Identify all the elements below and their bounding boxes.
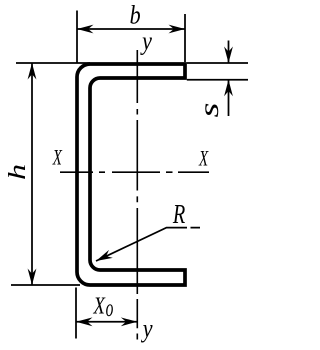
svg-text:X: X: [93, 292, 106, 319]
svg-text:h: h: [5, 164, 31, 180]
centerline y-y (vertical): [136, 50, 138, 340]
R leader arrow: [94, 250, 113, 265]
svg-text:y: y: [140, 315, 153, 343]
arrow s bottom: [224, 80, 233, 97]
dimension s lines: [228, 41, 230, 117]
channel profile outline: [77, 64, 185, 285]
svg-text:o: o: [106, 294, 114, 322]
arrow Xo left: [76, 317, 93, 326]
arrow h bottom: [28, 269, 37, 286]
centerline x-x (horizontal): [60, 171, 209, 173]
dimension b extension lines: [77, 11, 185, 64]
dimension h line: [31, 63, 33, 285]
arrow s top: [224, 47, 233, 64]
svg-text:X: X: [52, 146, 63, 171]
dimension s extension lines: [187, 63, 248, 80]
svg-text:R: R: [172, 200, 186, 229]
svg-text:s: s: [194, 103, 224, 118]
svg-text:y: y: [139, 28, 152, 56]
svg-text:X: X: [198, 147, 209, 172]
svg-text:b: b: [130, 2, 141, 30]
dimension Xo line: [76, 321, 137, 323]
arrow h top: [28, 63, 37, 80]
arrow b left: [77, 25, 94, 34]
arrow Xo right: [121, 317, 138, 326]
dimension b line: [77, 28, 185, 30]
arrow b right: [169, 25, 186, 34]
dimension h extension lines: [11, 63, 90, 285]
dimension Xo extension line: [75, 288, 77, 339]
R leader line with shelf: [96, 228, 200, 261]
